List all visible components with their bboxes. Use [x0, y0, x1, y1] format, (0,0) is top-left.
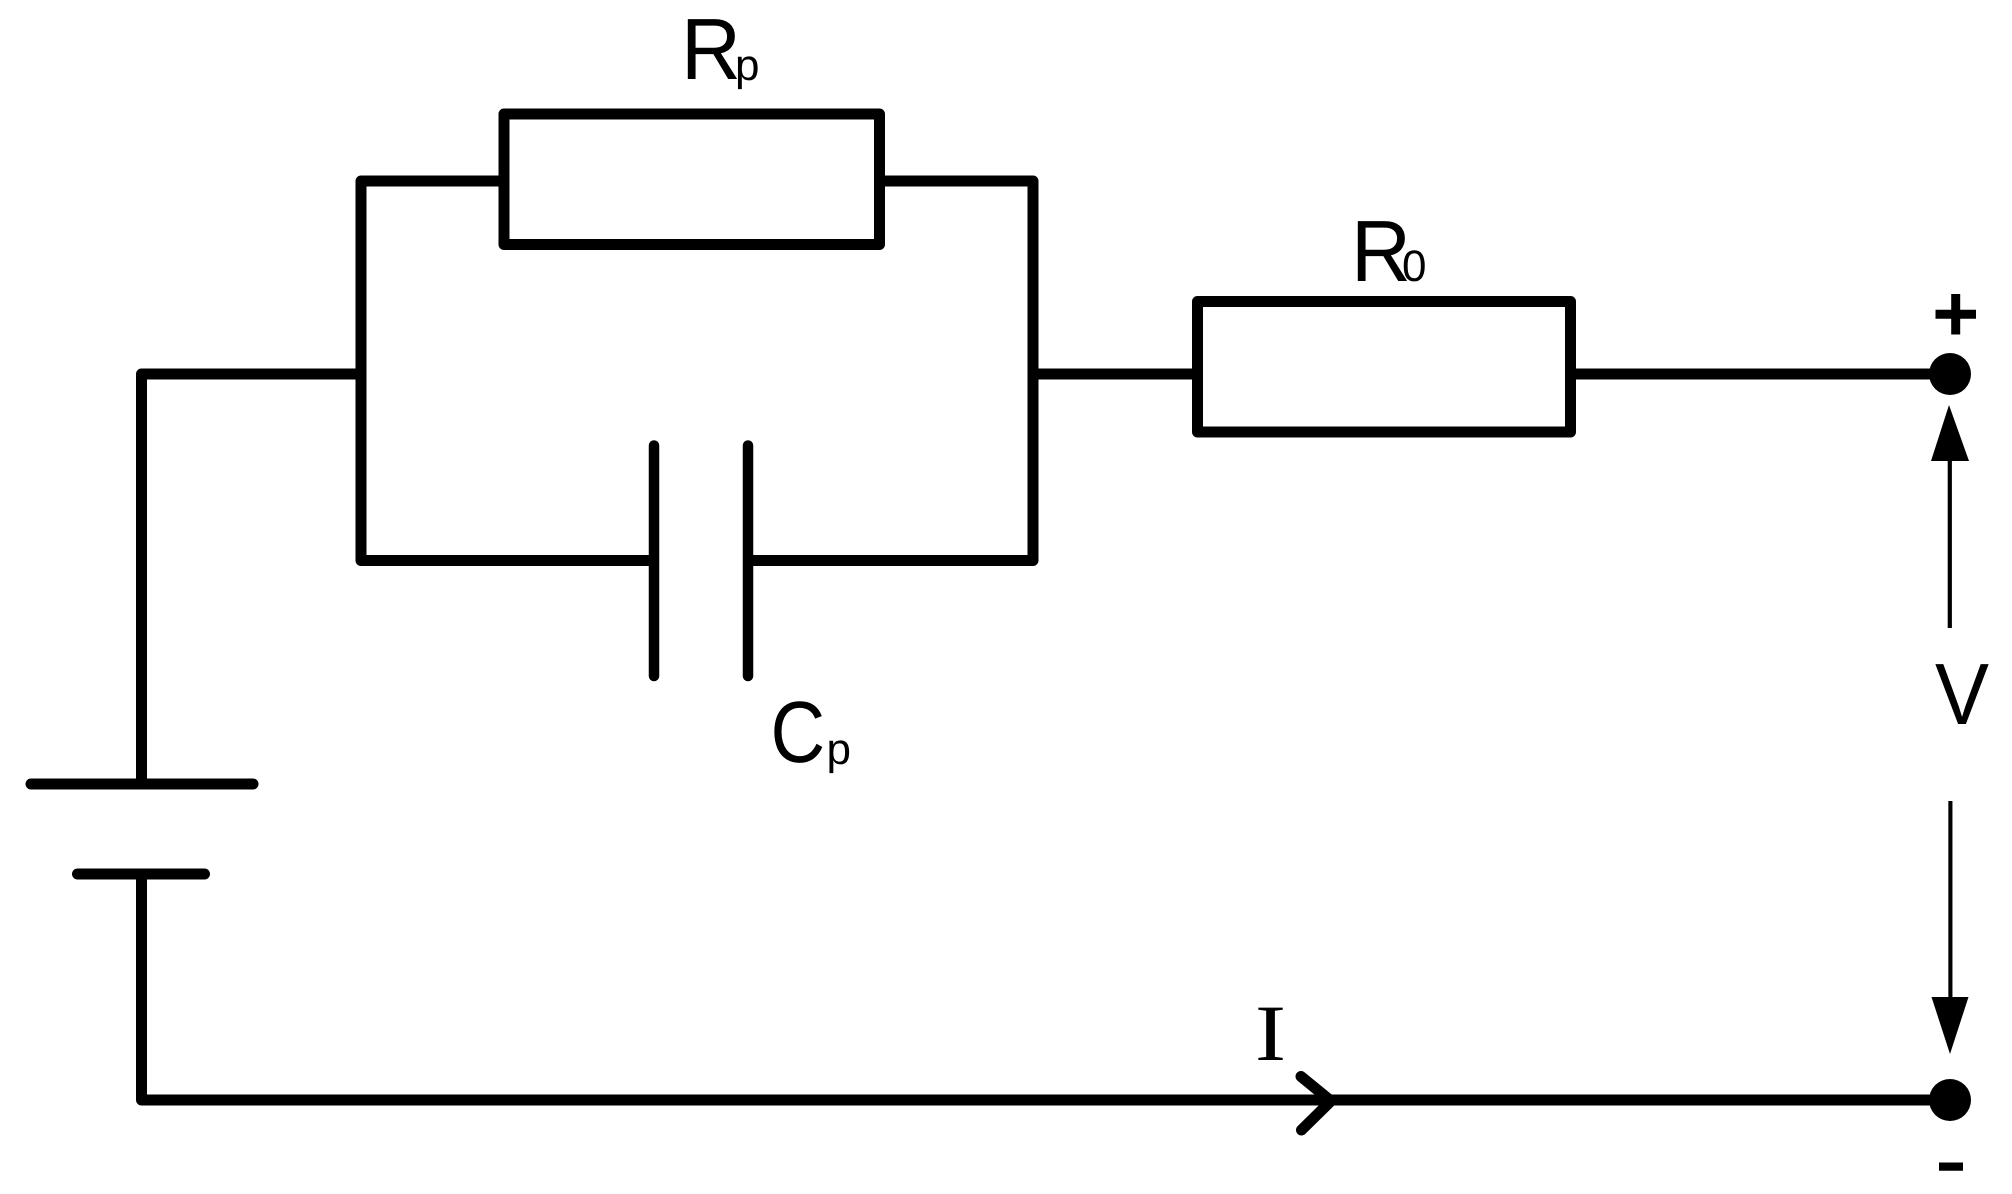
svg-text:C: C	[771, 684, 826, 781]
svg-text:p: p	[735, 41, 759, 90]
svg-text:0: 0	[1402, 242, 1426, 291]
svg-text:p: p	[827, 725, 851, 774]
svg-text:R: R	[681, 1, 741, 98]
svg-text:V: V	[1935, 646, 1989, 743]
svg-text:I: I	[1255, 990, 1286, 1078]
